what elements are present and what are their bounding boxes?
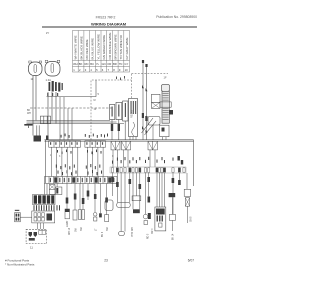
main board bus lower <box>45 140 194 142</box>
svg-text:LAMP: LAMP <box>66 220 69 227</box>
svg-text:1 4A: 1 4A <box>46 78 52 82</box>
svg-text:* Non-Illustrated Parts: * Non-Illustrated Parts <box>5 263 35 267</box>
switch internal marks <box>112 103 127 117</box>
ice maker box <box>26 229 47 243</box>
defrost thermostat mini box <box>15 210 21 222</box>
relay internal text bars <box>131 101 137 114</box>
right hatch blobs <box>111 177 181 189</box>
diagonal wire segments <box>142 118 157 135</box>
wire horizontal upper <box>47 80 97 97</box>
pin labels above strip <box>50 155 114 158</box>
wire compressor start <box>51 92 53 121</box>
svg-text:BU 6: BU 6 <box>102 231 104 237</box>
svg-text:GN 8: GN 8 <box>191 216 193 222</box>
dark box component R2 <box>133 209 140 213</box>
dark component D1 <box>99 213 102 217</box>
center drop wire CW2 <box>66 184 68 210</box>
svg-text:GN: GN <box>102 62 106 66</box>
pin marks above bus <box>61 134 102 138</box>
center drop wire CW6 <box>94 184 96 213</box>
svg-text:OR 3: OR 3 <box>152 228 154 234</box>
relay component K2 <box>105 200 113 211</box>
small blob right of capacitor <box>170 110 174 115</box>
connector group G1 <box>49 141 81 147</box>
line filter connector <box>40 116 50 124</box>
overload protector cluster <box>47 81 63 96</box>
connector group G2 <box>85 141 106 147</box>
svg-text:YL YELLOW WIRE: YL YELLOW WIRE <box>96 34 100 60</box>
svg-text:BU: BU <box>90 62 94 66</box>
run capacitor C1 <box>162 85 170 124</box>
box component B1 <box>105 215 109 231</box>
wire horizontal N <box>27 123 125 125</box>
wire bundle verticals <box>60 97 72 140</box>
svg-text:WH: WH <box>73 62 78 66</box>
svg-text:WIRING DIAGRAM: WIRING DIAGRAM <box>91 21 127 26</box>
svg-text:YL: YL <box>96 62 100 66</box>
wires label box to ice maker <box>38 223 44 229</box>
switch SW2 <box>116 103 122 120</box>
wire color code column text <box>74 32 129 59</box>
dashed enclosure right section <box>132 73 169 99</box>
connector plug P1a <box>111 141 120 150</box>
dark mark lower left of fan box <box>148 213 151 219</box>
wire compressor run <box>47 92 49 140</box>
center drop wire CW7 <box>100 184 102 214</box>
wire fan motor lead 1 <box>32 76 34 136</box>
X-box connector above block <box>49 185 55 195</box>
wire SW3 down <box>124 121 126 140</box>
wire tstat to label box <box>20 216 32 218</box>
connector plug P2 <box>148 141 157 150</box>
svg-text:WH WHITE WIRE: WH WHITE WIRE <box>74 35 78 59</box>
svg-text:WH: WH <box>27 112 31 115</box>
svg-text:GY: GY <box>124 62 128 66</box>
right drop wires <box>113 173 188 232</box>
center drop wire CW8 <box>106 184 108 215</box>
svg-text:OR ORANGE WIRE: OR ORANGE WIRE <box>108 32 112 59</box>
svg-text:OR: OR <box>107 62 111 66</box>
lower terminal cluster <box>148 117 169 140</box>
svg-text:BR BROWN WIRE: BR BROWN WIRE <box>114 34 118 59</box>
wire horizontal L2 <box>27 121 117 123</box>
wire right lower <box>172 197 174 231</box>
wire pair with terminals <box>142 60 148 140</box>
box under indicator <box>144 221 148 225</box>
board right edge <box>193 140 195 186</box>
left connector strip <box>45 177 118 184</box>
svg-text:FRS23 7RF2: FRS23 7RF2 <box>96 15 116 19</box>
end pill connector <box>119 232 125 236</box>
wire compressor common <box>55 92 57 124</box>
center hatch blobs <box>66 194 108 205</box>
svg-text:TN TAN WIRE NO: TN TAN WIRE NO <box>119 34 123 59</box>
center drop wire CW4 <box>80 184 83 210</box>
wire color code table <box>73 31 130 73</box>
svg-text:BK: BK <box>79 62 83 66</box>
wire SW1 down <box>111 120 113 140</box>
svg-text:23: 23 <box>104 259 108 263</box>
svg-text:6/07: 6/07 <box>188 259 194 263</box>
junction label text <box>27 109 31 115</box>
start relay hook wire <box>132 122 135 136</box>
svg-text:GY GRAY WIRE: GY GRAY WIRE <box>125 37 129 59</box>
svg-text:BR: BR <box>113 62 117 66</box>
wire SW2 down <box>118 120 120 140</box>
svg-text:BU BLUE WIRE: BU BLUE WIRE <box>91 38 95 60</box>
switch SW1 <box>110 105 115 120</box>
dark terminal block <box>33 195 56 205</box>
svg-text:RD RED WIRE: RD RED WIRE <box>85 39 89 59</box>
wires below G3 <box>113 150 128 167</box>
wires below G1 <box>51 147 78 176</box>
center drop wire CW1 <box>56 184 58 188</box>
tiny wire labels above strip S2 <box>112 157 174 164</box>
wire pair to shield <box>37 125 39 135</box>
indicator circle <box>143 214 148 219</box>
center drop wire CW5 <box>87 184 90 201</box>
capacitor bracket <box>160 102 171 107</box>
small box component R1 <box>132 196 141 201</box>
fan shroud box <box>155 207 166 231</box>
svg-text:#Y: #Y <box>46 31 49 35</box>
condenser fan motor M1 <box>29 61 43 76</box>
svg-text:HTR WH: HTR WH <box>132 227 134 237</box>
main board bus upper <box>45 139 194 141</box>
start relay box <box>129 99 138 137</box>
lamp component L1 <box>65 209 70 227</box>
svg-text:GN GREEN WIRE: GN GREEN WIRE <box>102 35 106 60</box>
far right component chain <box>184 189 192 223</box>
dark blob top right <box>169 193 176 197</box>
board left edge <box>44 140 46 183</box>
component pair P4 <box>79 210 85 232</box>
pin number specks below connectors <box>57 150 102 155</box>
svg-text:10: 10 <box>125 68 128 72</box>
overload device boxes <box>152 94 161 108</box>
svg-text:BK 14: BK 14 <box>173 233 175 240</box>
center drop wire CW3 <box>74 184 76 211</box>
wire horizontal L1 <box>27 120 111 122</box>
wire fan motor lead 2 <box>35 76 37 121</box>
svg-text:RD: RD <box>85 62 89 66</box>
tiny wire labels above left strip <box>56 164 102 175</box>
wires under relay <box>130 137 136 140</box>
hatch on wire left of fan box <box>148 197 151 203</box>
footer functional parts note <box>5 259 35 267</box>
small box right <box>169 214 175 220</box>
tiny specks above dashed line <box>116 76 125 80</box>
ground symbol <box>24 124 32 128</box>
connector plug P1b <box>122 141 131 150</box>
label ticks under block <box>34 205 61 210</box>
svg-text:M: M <box>94 99 96 102</box>
wire horizontal dashed mid <box>30 107 112 109</box>
switch SW3 <box>123 101 128 121</box>
small component pair <box>56 187 62 195</box>
wires below P2 <box>150 150 155 167</box>
svg-text:TN: TN <box>119 62 123 66</box>
lamp circle L2 <box>93 213 97 232</box>
blob pair right <box>178 156 184 165</box>
svg-text:RD 5: RD 5 <box>148 233 150 239</box>
svg-text:WH 14: WH 14 <box>69 227 71 235</box>
switch component S4 <box>73 210 78 232</box>
small mark at board corner <box>46 136 49 141</box>
wires below G2 <box>88 147 104 176</box>
tiny marks above bus right <box>104 134 108 138</box>
compressor motor M2 <box>45 60 60 76</box>
hatch on SW1 wire <box>111 124 113 131</box>
feed wires to terminal block <box>45 184 48 195</box>
connector strip S2 <box>110 167 186 173</box>
dashed enclosure compressor compartment <box>91 80 132 140</box>
shield connector blob <box>34 136 42 142</box>
svg-text:1F: 1F <box>164 76 167 80</box>
header rule <box>42 26 197 28</box>
hatch marks on capacitor leads <box>142 113 148 121</box>
svg-text:11: 11 <box>30 246 33 250</box>
crossing pill connector <box>117 203 131 208</box>
svg-text:BK BLACK WIRE: BK BLACK WIRE <box>79 36 83 59</box>
hatch on SW2 wire <box>118 124 120 131</box>
connector label box lower <box>32 211 55 223</box>
svg-text:Publication No. 299808900: Publication No. 299808900 <box>156 15 197 19</box>
wire color code abbreviation rows <box>73 62 128 72</box>
